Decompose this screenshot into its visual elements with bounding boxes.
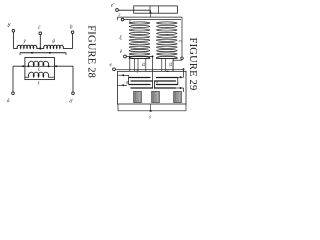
svg-text:52: 52 xyxy=(141,63,145,67)
svg-text:ξ: ξ xyxy=(38,80,40,85)
svg-text:ŷ: ŷ xyxy=(148,114,151,119)
svg-text:57: 57 xyxy=(155,81,159,85)
svg-text:FIGURE 29: FIGURE 29 xyxy=(187,38,198,91)
svg-text:56: 56 xyxy=(125,81,129,85)
svg-text:50: 50 xyxy=(136,69,140,73)
svg-text:53: 53 xyxy=(168,63,172,67)
svg-text:FIGURE 28: FIGURE 28 xyxy=(85,25,96,78)
svg-text:51: 51 xyxy=(166,69,170,73)
svg-text:ξ: ξ xyxy=(38,67,40,72)
